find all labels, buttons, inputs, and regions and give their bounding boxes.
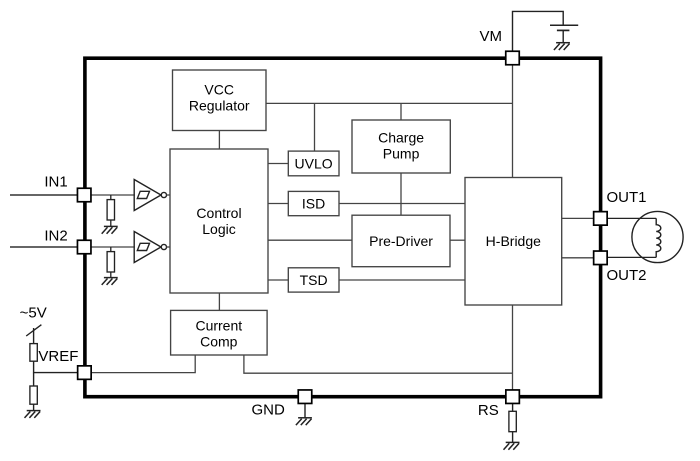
battery supply (short plate) [557,29,570,31]
wire: divider tap down [33,373,35,386]
resistor (RS sense) [509,411,516,431]
svg-text:OUT1: OUT1 [607,189,647,206]
battery supply (long plate) [550,24,578,26]
pin OUT1 [594,212,608,226]
pin OUT2 [594,251,608,265]
svg-text:RS: RS [478,402,499,419]
pin IN1 [77,188,91,202]
wire: IN2 pull-down stub [110,247,112,252]
wire: divider tap to VREF pin [34,361,84,372]
ground (VREF divider) [24,411,40,418]
wire: VCC regulator output rail [266,102,513,104]
pin VREF [78,366,92,380]
block: TSD [288,268,339,292]
wire: TSD to H-Bridge [339,279,465,281]
wire: control logic to ISD [268,203,288,205]
wire: VCC regulator to control logic [218,131,220,150]
wire: H-Bridge to OUT1 [562,217,601,219]
svg-text:VM: VM [480,28,503,45]
svg-text:IN2: IN2 [44,227,67,244]
pin IN2 [77,240,91,254]
wire: control logic to TSD [268,279,288,281]
svg-text:Current: Current [195,317,242,333]
wire: control logic to pre-driver [268,239,352,241]
pin RS [506,390,520,404]
wire: buffer IN1 to control logic [167,194,171,196]
wire: GND pin to ground [304,404,306,418]
ground (GND pin) [296,418,312,425]
wire: IN2 to buffer [84,246,135,248]
wire: pre-driver to H-Bridge [450,239,465,241]
wire: control logic to UVLO [268,163,288,165]
ground (IN2 pull-down) [102,278,118,285]
wire: current comp to VREF pin [84,355,195,373]
resistor (IN2 pull-down) [107,252,114,272]
ground (IN1 pull-down) [102,226,118,233]
wire: buffer IN2 to control logic [167,246,171,248]
ground (RS sense) [503,442,519,449]
svg-text:Pre-Driver: Pre-Driver [369,233,433,249]
ground (supply) [554,43,570,50]
wire: battery to ground [562,30,564,42]
block: H-Bridge [465,178,562,306]
resistor (VREF lower divider) [30,386,37,404]
block: Pre-Driver [352,215,450,267]
svg-text:Control: Control [196,205,241,221]
wire: control logic to current comp [218,293,220,310]
wire: IN1 resistor to ground [110,220,112,226]
block: Control Logic [170,149,268,293]
svg-text:Charge: Charge [378,130,424,146]
svg-text:TSD: TSD [300,272,328,288]
wire: current comp to RS sense [244,355,513,373]
wire: ~5V to VREF resistor [33,328,35,344]
block: Charge Pump [352,120,450,173]
resistor (IN1 pull-down) [107,200,114,220]
svg-text:IN1: IN1 [44,174,67,191]
wire: rail to UVLO [314,103,316,151]
svg-text:VREF: VREF [38,348,78,365]
svg-text:Logic: Logic [202,221,235,237]
block: UVLO [288,151,339,176]
block: Current Comp [171,310,268,355]
svg-text:UVLO: UVLO [295,156,333,172]
svg-text:OUT2: OUT2 [607,267,647,284]
svg-text:H-Bridge: H-Bridge [486,233,541,249]
wire: IN1 to buffer [84,194,135,196]
wire: VM supply line inside IC [512,58,514,178]
svg-text:~5V: ~5V [20,305,47,322]
wire: charge pump to pre-driver [400,173,402,215]
wire: RS pin to sense resistor [512,403,514,411]
wire: H-Bridge to RS pin [512,305,514,397]
wire: IN2 resistor to ground [110,272,112,278]
block: ISD [288,191,339,215]
wire: OUT2 to motor [600,256,656,258]
svg-text:Comp: Comp [200,333,238,349]
schmitt buffer IN1 [134,180,166,211]
wire: OUT1 to motor [600,217,656,219]
svg-text:VCC: VCC [204,82,234,98]
block: VCC Regulator [173,70,267,131]
wire: IN1 input lead [10,194,84,196]
pin GND [298,390,312,404]
wire: VM pin to supply [513,11,564,52]
wire: IN2 input lead [10,246,84,248]
motor winding coil [656,218,661,257]
wire: lower divider to ground [33,404,35,410]
motor M [632,211,683,262]
wire: IN1 pull-down stub [110,195,112,200]
supply tick (~5V) [26,325,41,336]
pin VM [506,51,520,65]
wire: rail to charge pump [400,103,402,120]
svg-text:ISD: ISD [302,196,325,212]
svg-text:Regulator: Regulator [189,98,250,114]
svg-text:Pump: Pump [383,146,420,162]
wire: RS resistor to ground [512,432,514,443]
IC outline [85,58,601,397]
svg-text:GND: GND [252,402,286,419]
wire: ISD to H-Bridge [339,203,465,205]
wire: H-Bridge to OUT2 [562,257,601,259]
schmitt buffer IN2 [134,232,166,263]
resistor (VREF upper divider) [30,344,37,362]
